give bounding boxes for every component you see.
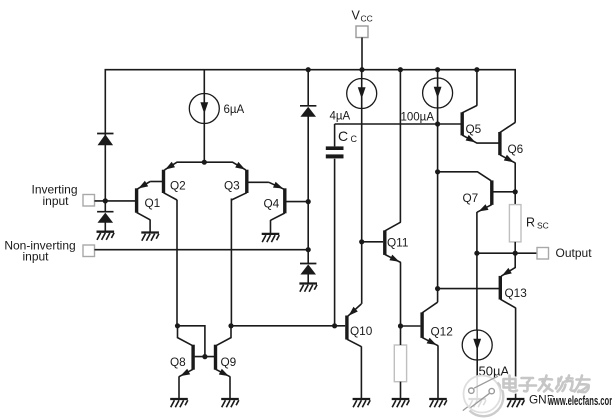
wire Cc top riser xyxy=(334,124,336,146)
diode D3 xyxy=(300,264,316,275)
current source I3 100uA xyxy=(423,78,453,108)
svg-text:100µA: 100µA xyxy=(401,111,435,123)
wire between D2 and D3 xyxy=(307,116,309,263)
wire Rsc bottom to output line xyxy=(514,242,516,253)
ground under Q9 xyxy=(221,399,239,407)
wire D3 to ground xyxy=(307,274,309,283)
transistor Q7 xyxy=(438,172,516,212)
wire Q3 collector down to mirror xyxy=(230,199,232,326)
wire output node down to 50uA xyxy=(476,253,478,330)
svg-text:SC: SC xyxy=(537,221,549,231)
svg-text:Q1: Q1 xyxy=(145,196,161,210)
svg-text:Q6: Q6 xyxy=(508,142,524,156)
wire inverting input to Q1 base xyxy=(95,200,136,202)
transistor Q11 xyxy=(362,222,401,262)
transistor Q13 xyxy=(438,253,516,308)
wire Q12 emitter to ground xyxy=(437,345,439,398)
ground under D1 xyxy=(97,232,115,240)
svg-text:Q10: Q10 xyxy=(350,324,373,338)
node rail-100uA xyxy=(435,67,440,72)
node inverting input xyxy=(103,198,108,203)
svg-text:6µA: 6µA xyxy=(224,104,245,116)
wire Vcc square to rail xyxy=(361,38,363,70)
svg-text:input: input xyxy=(42,194,69,208)
node Q11 emitter xyxy=(398,323,403,328)
current source I4 50uA xyxy=(462,330,492,360)
wire 100uA down to Q12 collector xyxy=(437,108,439,302)
ground under D3 xyxy=(299,284,317,292)
svg-text:Q9: Q9 xyxy=(221,355,237,369)
node rail-Q5 xyxy=(474,67,479,72)
wire 6uA to node A xyxy=(203,124,205,163)
transistor Q4 xyxy=(269,182,308,221)
wire top rail Vcc xyxy=(105,70,515,212)
transistor Q8 xyxy=(178,326,215,377)
svg-text:input: input xyxy=(22,250,49,264)
node Q7 base xyxy=(435,169,440,174)
wire long horizontal bias line y124 (Cc top to Q5 base) xyxy=(335,123,461,125)
node rail-Q11 xyxy=(398,67,403,72)
wire Q11 collector riser to rail xyxy=(399,70,401,223)
svg-text:Q11: Q11 xyxy=(387,235,408,249)
node mirror right xyxy=(228,323,233,328)
node bias-100uA xyxy=(435,121,440,126)
transistor Q5 xyxy=(462,106,498,144)
svg-text:Q13: Q13 xyxy=(505,286,528,300)
ground under Q10 xyxy=(353,399,371,407)
wire mirror output line y326 xyxy=(231,325,345,327)
terminal Non-inverting input square xyxy=(83,245,95,257)
wire Cc bottom to mirror line xyxy=(334,159,336,326)
node A tail pair xyxy=(202,160,207,165)
ground under Q13 GND xyxy=(507,399,525,407)
wire Q13 collector to ground xyxy=(515,308,517,399)
transistor Q6 xyxy=(500,122,515,162)
node output Rsc xyxy=(513,251,518,256)
wire Q8 emitter to ground xyxy=(178,376,180,398)
node mirror left xyxy=(175,323,180,328)
ground under Q1 xyxy=(141,233,159,241)
diode D2 xyxy=(300,106,316,117)
wire non-inverting input to clamp node xyxy=(95,249,309,251)
svg-text:Q8: Q8 xyxy=(170,355,186,369)
terminal Output square xyxy=(537,248,549,260)
wire Q10 collector to ground xyxy=(360,346,362,398)
wire Q9 emitter to ground xyxy=(229,376,231,398)
svg-text:Q12: Q12 xyxy=(431,325,453,339)
wire 4uA down through y124 line to Q10 emitter xyxy=(361,109,363,304)
wire 50uA to ground xyxy=(476,360,478,399)
transistor Q12 xyxy=(422,302,438,346)
wire 100uA riser to rail xyxy=(437,70,439,78)
node Q11 base xyxy=(359,239,364,244)
wire 4uA riser to rail xyxy=(361,70,363,79)
svg-text:Q3: Q3 xyxy=(224,179,240,193)
terminal Vcc square xyxy=(356,26,368,38)
node rail-Vcc xyxy=(359,67,364,72)
capacitor Cc xyxy=(326,146,344,150)
node Cc bottom xyxy=(332,323,337,328)
watermark logo xyxy=(463,376,503,417)
node Q8 Q9 bases xyxy=(202,354,207,359)
wire resistor to ground xyxy=(400,382,402,399)
terminal Inverting input square xyxy=(83,195,95,207)
ground under Q12 xyxy=(429,399,447,407)
transistor Q3 xyxy=(204,162,269,200)
transistor Q9 xyxy=(216,326,232,377)
wire Q7 emitter to output node xyxy=(476,212,478,253)
svg-text:CC: CC xyxy=(361,14,373,24)
current source I1 6uA xyxy=(189,94,219,124)
node Q4 base clamp xyxy=(306,199,311,204)
ground under 50uA xyxy=(468,399,486,407)
transistor Q2 xyxy=(150,162,204,200)
wire 6uA riser to rail xyxy=(203,70,205,94)
wire Q8 diode connection jog xyxy=(178,326,205,357)
ground under Q8 xyxy=(170,399,188,407)
svg-text:V: V xyxy=(352,9,361,23)
wire Q12 base link xyxy=(401,325,421,327)
wire Q1 collector to ground xyxy=(149,220,151,232)
wire Q5 collector riser xyxy=(476,70,478,106)
resistor R1 xyxy=(394,345,406,382)
resistor Rsc xyxy=(509,205,521,242)
transistor Q10 xyxy=(347,304,362,347)
svg-text:Q2: Q2 xyxy=(170,179,186,193)
current source I2 4uA xyxy=(347,79,377,109)
svg-text:C: C xyxy=(338,128,348,144)
svg-text:R: R xyxy=(526,215,535,229)
svg-text:Output: Output xyxy=(556,246,593,260)
svg-text:Q5: Q5 xyxy=(466,122,482,136)
diode D1 xyxy=(97,212,113,223)
node Rsc top xyxy=(513,189,518,194)
node non-inverting clamp xyxy=(306,247,311,252)
wire Q4 collector to ground xyxy=(270,220,272,233)
wire D1 to ground xyxy=(104,222,106,231)
node Q13 base xyxy=(435,286,440,291)
node rail-clamp xyxy=(306,67,311,72)
svg-text:4µA: 4µA xyxy=(330,110,351,122)
wire Q11 emitter node to resistor xyxy=(400,326,402,345)
node output left xyxy=(474,251,479,256)
wire output line xyxy=(477,252,537,254)
wire Q2 collector down to mirror xyxy=(176,200,178,326)
svg-text:Q4: Q4 xyxy=(264,197,280,211)
wire clamp chain vertical x308 xyxy=(307,70,309,106)
diode D0 on left rail xyxy=(97,134,113,146)
ground under Q4 xyxy=(262,234,280,242)
svg-text:C: C xyxy=(351,134,358,144)
watermark chinese text dian xyxy=(504,376,590,393)
ground under resistor R1 xyxy=(392,399,410,407)
svg-text:Q7: Q7 xyxy=(463,191,479,205)
wire Q6 emitter to Rsc node xyxy=(514,163,516,205)
wire Q11 emitter down to resistor node xyxy=(400,262,402,326)
svg-text:www.elecfans.com: www.elecfans.com xyxy=(547,393,612,408)
transistor Q1 xyxy=(137,181,151,220)
